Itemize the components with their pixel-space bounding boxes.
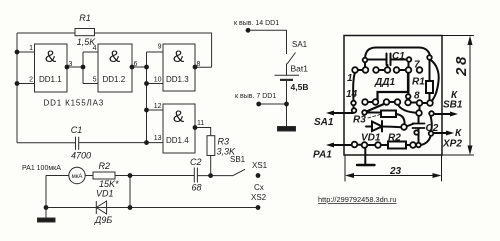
capacitor C2 (194, 168, 197, 183)
svg-text:&: & (173, 107, 185, 126)
pads mid (362, 110, 367, 115)
wire left bus (16, 33, 18, 143)
resistor R3 (207, 136, 215, 156)
ground left (45, 208, 47, 219)
trace pad4 to C2 top (398, 105, 416, 113)
wire top feedback (17, 33, 212, 67)
svg-text:R3: R3 (218, 137, 230, 147)
gate U DD1.1 (35, 44, 68, 92)
svg-text:11: 11 (197, 120, 204, 127)
wire DD1.4 out to R3 (195, 128, 211, 136)
svg-text:DD1 К155ЛА3: DD1 К155ЛА3 (44, 99, 105, 108)
svg-text:SB1: SB1 (230, 155, 246, 164)
svg-text:DD1.1: DD1.1 (39, 75, 62, 84)
switch SA1 (287, 53, 296, 76)
svg-text:&: & (109, 47, 121, 66)
capacitor C1 layout (387, 54, 391, 68)
svg-text:VD1: VD1 (96, 189, 114, 199)
node dots left schematic (15, 50, 20, 55)
svg-text:ХР2: ХР2 (442, 139, 462, 150)
trace left col (353, 73, 355, 109)
pads C1 ends (363, 58, 368, 63)
dim line 28 (469, 38, 471, 152)
arrow to SB1 (434, 113, 453, 115)
svg-text:8: 8 (414, 91, 420, 102)
svg-text:R1: R1 (79, 13, 91, 23)
wire DD1.1 out to DD1.2 in (67, 52, 98, 84)
diode VD1 (96, 201, 106, 214)
gate U DD1.3 (163, 44, 195, 91)
pads left col (351, 101, 356, 106)
arrowhead XP2 (446, 131, 454, 136)
trace arc right descent (430, 60, 439, 103)
svg-text:13: 13 (154, 135, 162, 142)
arrow to SA1 (331, 112, 353, 114)
svg-text:РА1: РА1 (313, 150, 332, 161)
capacitor C1 (76, 137, 79, 150)
wire bottom rail (46, 207, 258, 209)
wire bat plus (248, 30, 287, 54)
svg-text:68: 68 (192, 183, 202, 193)
svg-text:Cx: Cx (254, 183, 264, 192)
wire R3 to C2 row (210, 156, 212, 176)
svg-text:PA1 100мкА: PA1 100мкА (22, 165, 61, 172)
wire C2 to SB1 (197, 175, 233, 177)
arrowhead SA1 (326, 111, 334, 116)
svg-text:3: 3 (69, 61, 73, 68)
svg-text:DD1.3: DD1.3 (166, 75, 189, 84)
resistor R2 (93, 172, 115, 179)
resistor R2 layout (388, 142, 406, 149)
diode VD1 layout (366, 126, 372, 128)
trace pin stubs top (365, 60, 409, 100)
svg-text:к выв. 7 DD1: к выв. 7 DD1 (235, 93, 276, 100)
pointer R3 dashed (368, 115, 380, 119)
meter PA1 (69, 167, 85, 183)
ground battery (278, 127, 296, 132)
trace bottom row (357, 144, 417, 146)
arrowhead SB1 (450, 112, 458, 117)
svg-text:28: 28 (453, 54, 470, 77)
svg-text:к выв. 14 DD1: к выв. 14 DD1 (234, 20, 279, 27)
svg-text:http://299792458.3dn.ru: http://299792458.3dn.ru (318, 195, 397, 204)
resistor R1 (75, 29, 95, 36)
arrow to XP2 (433, 132, 449, 134)
svg-text:C2: C2 (190, 157, 202, 167)
svg-text:1: 1 (29, 45, 33, 52)
svg-text:14: 14 (346, 89, 358, 100)
ground layout bar (357, 164, 375, 166)
svg-text:SB1: SB1 (443, 100, 463, 111)
trace big arc top (365, 48, 430, 60)
dim line 23 (347, 175, 440, 177)
svg-text:SA1: SA1 (314, 117, 334, 128)
wire C1 row / pin13 (17, 142, 163, 144)
svg-text:SA1: SA1 (292, 40, 308, 49)
wire junction R2C2 down (129, 176, 131, 208)
svg-text:Bat1: Bat1 (291, 64, 309, 74)
pads bottom row (362, 142, 368, 148)
svg-text:&: & (45, 47, 57, 66)
gate U DD1.2 (98, 44, 132, 92)
battery Bat1 (275, 74, 300, 76)
svg-text:С2: С2 (426, 123, 439, 134)
svg-text:R3: R3 (353, 115, 366, 126)
trace thick L to row2 (378, 73, 409, 100)
svg-text:VD1: VD1 (361, 133, 381, 144)
trace C1 row (365, 59, 409, 61)
svg-text:1,5K: 1,5K (77, 37, 97, 47)
svg-text:6: 6 (134, 61, 138, 68)
svg-text:9: 9 (158, 44, 162, 51)
svg-text:&: & (173, 47, 185, 66)
arrowhead PA1 (326, 143, 334, 148)
svg-text:C1: C1 (71, 125, 83, 135)
switch SB1 (233, 169, 245, 175)
capacitor C2 layout (413, 124, 425, 129)
svg-text:8: 8 (197, 61, 201, 68)
wire DD1.2 out / node to DD1.3+DD1.4 (132, 52, 163, 143)
wire meter (46, 176, 93, 208)
svg-text:10: 10 (154, 77, 162, 84)
svg-text:мкА: мкА (72, 174, 83, 180)
svg-text:DD1.4: DD1.4 (166, 136, 189, 145)
trace C2 col to XP2 (421, 116, 432, 145)
trace pin8col to C2 (419, 106, 421, 111)
svg-text:2: 2 (29, 77, 33, 84)
ground layout stem (364, 148, 366, 165)
svg-text:12: 12 (154, 103, 162, 110)
svg-text:R2: R2 (388, 133, 401, 144)
wire DD1.1 inputs (17, 52, 35, 84)
dim ext lines 23 (345, 155, 442, 181)
svg-text:R1: R1 (412, 77, 425, 88)
svg-text:К: К (455, 128, 462, 139)
trace diag to R3 (367, 104, 386, 112)
svg-text:1: 1 (347, 73, 353, 84)
wire R2 to C2 (115, 175, 194, 177)
svg-text:Д9Б: Д9Б (94, 215, 112, 225)
svg-text:7: 7 (414, 60, 420, 71)
dim ext lines 28 (442, 36, 474, 156)
pads DD1 row1 (352, 67, 358, 73)
svg-text:C1: C1 (392, 51, 405, 62)
svg-text:23: 23 (389, 166, 402, 177)
svg-text:4700: 4700 (71, 151, 91, 161)
gate U DD1.4 (163, 104, 195, 153)
svg-text:DD1.2: DD1.2 (103, 75, 126, 84)
pads DD1 row2 (362, 99, 368, 105)
wire bat minus to pin7 (259, 104, 287, 127)
svg-text:XS1: XS1 (252, 161, 268, 170)
trace R3 right down (396, 114, 405, 125)
svg-text:R2: R2 (99, 161, 111, 171)
svg-text:XS2: XS2 (251, 193, 267, 202)
svg-text:15K*: 15K* (99, 179, 119, 189)
arrow to PA1 (331, 144, 352, 146)
svg-text:5: 5 (93, 77, 97, 84)
board outline (344, 36, 442, 156)
trace row1 pairs (358, 70, 428, 103)
svg-text:4,5В: 4,5В (291, 82, 309, 92)
resistor R1 layout (426, 81, 433, 93)
arrowheads dims (468, 36, 473, 46)
svg-text:ДД1: ДД1 (374, 77, 395, 88)
resistor R3 layout (381, 111, 396, 118)
